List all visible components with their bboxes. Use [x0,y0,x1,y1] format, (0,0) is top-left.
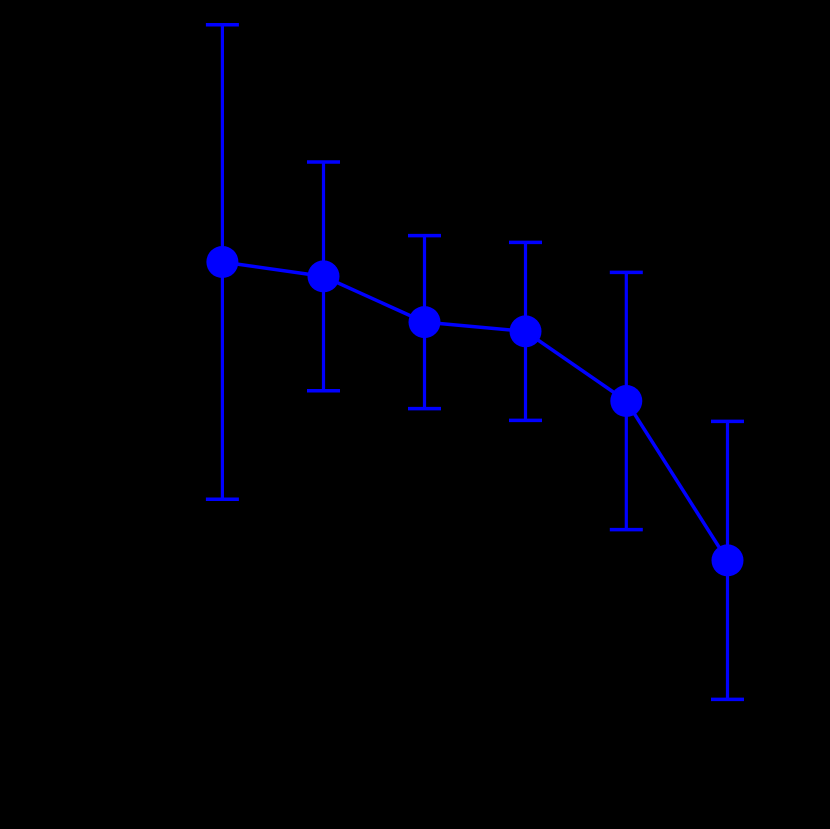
error bar 4 top cap [509,241,542,245]
error bar 3 top cap [408,234,441,238]
data point marker 3 [409,306,441,338]
data point marker 1 [206,246,238,278]
error bar 6 bottom cap [711,698,744,702]
error bar 1 bottom cap [206,498,239,502]
error bar 4 vertical line [524,242,527,420]
error bar 3 vertical line [423,236,426,409]
error bar 2 vertical line [322,162,325,391]
error bar 5 vertical line [625,272,628,529]
error bar 1 vertical line [221,25,224,500]
data point marker 2 [308,260,340,292]
error bar 4 bottom cap [509,419,542,423]
error bar 5 bottom cap [610,528,643,532]
data point marker 4 [510,315,542,347]
error bar 5 top cap [610,271,643,275]
data point marker 6 [712,544,744,576]
data line connecting points [222,262,727,560]
error bar 2 top cap [307,160,340,164]
data point marker 5 [610,385,642,417]
error bar 3 bottom cap [408,407,441,411]
error bar 6 vertical line [726,421,729,699]
error bar 6 top cap [711,420,744,424]
error bar 2 bottom cap [307,389,340,393]
error bar 1 top cap [206,23,239,27]
